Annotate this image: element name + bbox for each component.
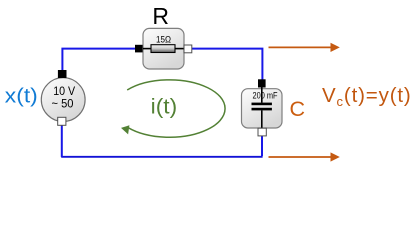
capacitor lead bottom [261, 110, 263, 128]
resistor pin 2 terminal (white) [184, 45, 192, 53]
svg-text:Vc(t)=y(t): Vc(t)=y(t) [322, 84, 412, 109]
voltage source X1 [41, 70, 85, 125]
resistor lead left [143, 48, 151, 50]
current loop arrow i(t) [121, 80, 225, 137]
svg-text:200 mF: 200 mF [253, 91, 278, 101]
capacitor pin 2 terminal (white) [258, 128, 266, 136]
resistor pin 1 terminal (black) [135, 45, 143, 53]
output voltage arrow top [269, 43, 340, 52]
svg-text:C: C [290, 97, 306, 121]
resistor body [151, 45, 175, 53]
svg-text:x(t): x(t) [5, 84, 38, 107]
wire from capacitor C bottom terminal down to bottom-right corner [261, 136, 263, 156]
capacitor bottom plate [252, 108, 272, 111]
capacitor pin 1 terminal (black) [258, 79, 266, 87]
wire from bottom-left corner up to source bottom terminal [61, 125, 63, 157]
resistor R [135, 28, 192, 69]
svg-text:R: R [152, 3, 169, 29]
source positive terminal (black) [58, 70, 67, 78]
wire from source top terminal up and right to resistor R [62, 49, 135, 70]
output voltage arrow bottom [269, 152, 340, 161]
capacitor C [242, 79, 283, 136]
resistor lead right [175, 48, 184, 50]
source negative terminal (white) [58, 117, 66, 125]
capacitor top plate [252, 103, 272, 106]
capacitor lead top [261, 88, 263, 103]
wire bottom horizontal from capacitor C to voltage source X1 [61, 156, 262, 158]
svg-text:15Ω: 15Ω [156, 34, 171, 45]
wire from resistor R right terminal to top-right corner and down to capacitor C [189, 49, 262, 80]
svg-text:~ 50: ~ 50 [52, 97, 74, 111]
svg-text:i(t): i(t) [151, 95, 178, 118]
